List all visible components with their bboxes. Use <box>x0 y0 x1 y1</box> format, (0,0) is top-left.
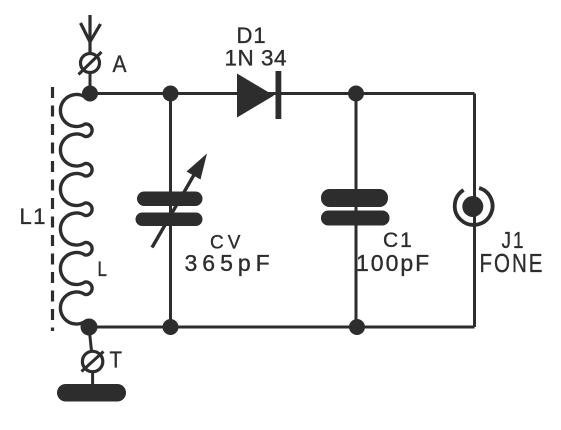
terminal T slash <box>82 352 104 372</box>
coil core dashed line <box>51 87 54 331</box>
wire top horizontal <box>90 92 475 95</box>
antenna mast <box>88 15 91 53</box>
svg-text:365pF: 365pF <box>185 250 275 276</box>
svg-text:T: T <box>110 347 123 373</box>
jack J1 inner contact <box>462 196 483 217</box>
capacitor CV bottom plate <box>136 213 203 227</box>
svg-text:C1: C1 <box>383 229 414 252</box>
capacitor CV top plate <box>137 192 203 207</box>
wire right vertical <box>473 94 476 328</box>
jack J1 outer arc <box>455 188 493 225</box>
capacitor CV arrow shaft <box>152 174 195 248</box>
coil L1 <box>60 95 92 325</box>
capacitor CV branch wire <box>169 94 172 328</box>
diode D1 triangle <box>237 74 274 118</box>
capacitor C1 branch wire <box>355 94 358 328</box>
svg-text:A: A <box>113 51 127 78</box>
terminal A slash <box>79 52 102 75</box>
svg-text:L: L <box>98 258 108 281</box>
antenna left barb <box>81 23 90 42</box>
antenna right barb <box>90 24 100 42</box>
wire T to ground <box>91 372 94 388</box>
terminal T wire <box>89 327 92 351</box>
svg-text:L1: L1 <box>20 204 47 229</box>
capacitor C1 top plate <box>321 189 388 207</box>
wire A to top node <box>89 73 92 94</box>
svg-text:FONE: FONE <box>480 250 545 278</box>
svg-text:D1: D1 <box>237 23 267 48</box>
capacitor C1 bottom plate <box>321 211 390 226</box>
terminal T circle <box>82 351 102 371</box>
node: bottom junction C1 <box>349 319 365 335</box>
node: bottom junction CV <box>163 319 179 335</box>
ground bar <box>57 384 126 402</box>
capacitor CV arrow head <box>187 154 208 180</box>
node: top junction antenna/coil <box>82 86 98 102</box>
terminal A circle <box>81 54 100 73</box>
wire bottom horizontal <box>90 326 475 329</box>
node: bottom junction coil <box>81 319 98 336</box>
svg-text:100pF: 100pF <box>356 250 431 276</box>
svg-text:1N 34: 1N 34 <box>225 46 288 71</box>
diode D1 cathode bar <box>276 71 282 119</box>
node: top junction C1 <box>348 86 364 102</box>
node: top junction CV <box>163 86 179 102</box>
